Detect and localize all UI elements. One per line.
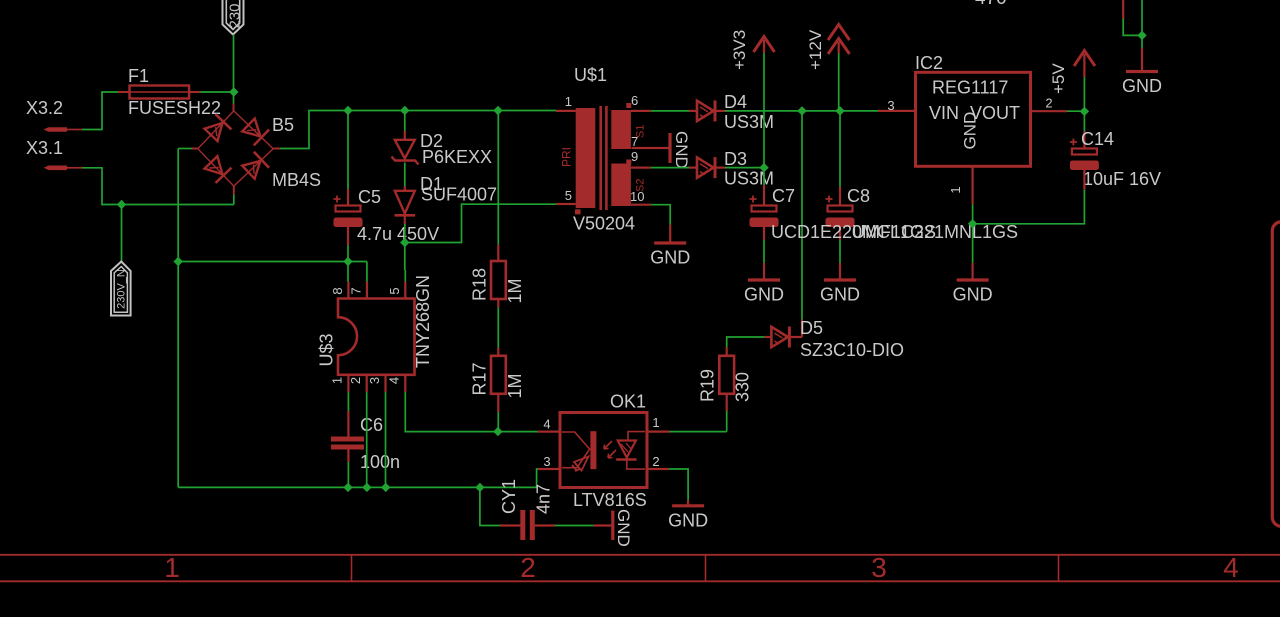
svg-text:1: 1 xyxy=(565,94,572,109)
svg-text:C8: C8 xyxy=(847,186,870,206)
supply arrow +5V xyxy=(1074,51,1095,67)
D5 anode lead xyxy=(765,336,772,338)
svg-text:MB4S: MB4S xyxy=(272,170,321,190)
OK1 pin4 stub xyxy=(538,431,560,433)
wire to transformer pin5 xyxy=(405,204,557,242)
IC2 pin 2 stub xyxy=(1031,110,1068,112)
junction D1/pin5 node xyxy=(400,238,409,247)
bridge right pin stub xyxy=(273,148,280,150)
capacitor C8 xyxy=(826,196,833,203)
bridge top pin stub xyxy=(233,104,235,111)
U$1 pin 7 stub xyxy=(632,147,669,149)
wire +3V3 down xyxy=(763,53,765,168)
svg-text:PRI: PRI xyxy=(560,147,574,167)
wire junction to U$3 pin5 area xyxy=(404,243,406,271)
U$1 pin 5 stub xyxy=(557,203,576,205)
OK1 LED xyxy=(562,432,590,450)
svg-text:3: 3 xyxy=(887,98,894,113)
svg-text:GND: GND xyxy=(1122,76,1162,96)
junction +12V/C8 xyxy=(835,106,844,115)
svg-text:4.7u 450V: 4.7u 450V xyxy=(357,224,439,244)
wire C5 bottom xyxy=(347,245,349,262)
svg-text:1: 1 xyxy=(164,552,180,583)
svg-text:P6KEXX: P6KEXX xyxy=(422,147,492,167)
component outline right edge (partial) xyxy=(1272,222,1280,527)
D3 cathode lead xyxy=(716,167,726,169)
svg-text:1M: 1M xyxy=(505,278,525,303)
wire D3 to node xyxy=(725,167,764,169)
svg-text:LTV816S: LTV816S xyxy=(573,490,647,510)
wire X3.1 xyxy=(82,168,122,205)
junction CY1 node xyxy=(475,483,484,492)
wire pin2 down xyxy=(366,392,368,487)
wire X3.1 to bridge bottom xyxy=(122,204,234,206)
IC2 pin 1 stub xyxy=(971,166,973,204)
svg-text:2: 2 xyxy=(520,552,536,583)
junction C6 bottom xyxy=(343,483,352,492)
resistor R17 xyxy=(491,356,506,394)
junction X3.1/230V_N node xyxy=(117,200,126,209)
svg-text:1: 1 xyxy=(948,186,963,193)
frame bottom band xyxy=(0,554,1280,556)
svg-text:3: 3 xyxy=(367,377,382,384)
wire rail to C8 xyxy=(839,111,841,187)
U$1 polarity dot primary xyxy=(575,209,581,214)
wire +5V down xyxy=(1083,77,1085,111)
D3 anode lead xyxy=(689,167,697,169)
svg-text:F1: F1 xyxy=(128,66,149,86)
svg-text:D3: D3 xyxy=(724,149,747,169)
svg-text:GND: GND xyxy=(614,509,633,547)
C8 bottom lead xyxy=(839,227,841,240)
capacitor C6 100n xyxy=(331,437,364,442)
D4 cathode lead xyxy=(716,110,726,112)
junction D5 branch xyxy=(797,106,806,115)
wire +12V down xyxy=(838,54,840,111)
bridge diode top-right xyxy=(242,119,260,137)
svg-text:GND: GND xyxy=(650,248,690,268)
wire OK1 pin1 to R19 xyxy=(670,431,727,433)
U$3 pin 5 stub xyxy=(404,282,406,299)
wire rail up to OK1 pin3 xyxy=(537,469,538,487)
wire node to C7 xyxy=(763,168,765,185)
svg-text:C5: C5 xyxy=(358,187,381,207)
svg-text:2: 2 xyxy=(1045,96,1052,111)
junction top right xyxy=(1137,31,1146,40)
IC2 pin 3 stub xyxy=(878,110,916,112)
bridge bottom pin stub xyxy=(233,186,235,195)
svg-text:4: 4 xyxy=(543,417,550,432)
OK1 pin2 stub xyxy=(647,468,669,470)
wire to pin7 xyxy=(366,262,368,282)
svg-text:IC2: IC2 xyxy=(915,53,943,73)
frame divider 1|2 xyxy=(351,555,353,582)
svg-text:US3M: US3M xyxy=(724,112,774,132)
U$1 secondary S2 xyxy=(611,164,631,207)
supply symbol 230V_N xyxy=(111,262,131,316)
bridge rectifier B5 MB4S xyxy=(198,111,234,149)
wire to CY1 xyxy=(480,487,500,525)
IC U$3 TNY268GN body xyxy=(338,299,415,375)
U$3 pin 8 stub xyxy=(347,282,349,299)
svg-text:8: 8 xyxy=(330,287,345,294)
C7 bottom lead xyxy=(763,227,765,240)
svg-text:D5: D5 xyxy=(800,318,823,338)
U$1 secondary S1 xyxy=(611,110,631,149)
C5 bottom lead xyxy=(347,227,349,245)
svg-text:2: 2 xyxy=(348,377,363,384)
svg-text:GND: GND xyxy=(668,510,708,530)
wire F1 to node xyxy=(201,91,234,93)
junction pin2 bottom xyxy=(362,483,371,492)
wire C5 top xyxy=(347,111,349,190)
regulator IC2 REG1117 body xyxy=(916,72,1031,166)
wire R19 to D5 xyxy=(727,337,765,347)
R18 top lead xyxy=(497,245,499,261)
wire node to C14 xyxy=(1083,111,1085,131)
svg-text:470: 470 xyxy=(975,0,1007,9)
wire C8 to gnd xyxy=(839,240,841,263)
wire bridge bottom vertical xyxy=(233,195,235,205)
wire pin1 to gnd xyxy=(972,224,974,263)
svg-text:2: 2 xyxy=(652,454,659,469)
wire to pin5 stub xyxy=(404,270,406,282)
wire pin6 to D4 xyxy=(651,110,689,112)
stub from top edge xyxy=(1122,0,1124,19)
ground (C7) xyxy=(763,263,765,279)
bottom rail xyxy=(178,486,536,488)
fuse F1 FUSESH22 xyxy=(118,91,130,93)
svg-text:1M: 1M xyxy=(505,373,525,398)
junction minus rail left xyxy=(174,257,183,266)
R19 bottom lead xyxy=(726,394,728,411)
svg-text:GND: GND xyxy=(820,285,860,305)
junction pin3 bottom xyxy=(381,483,390,492)
svg-text:U$3: U$3 xyxy=(317,333,337,366)
svg-text:US3M: US3M xyxy=(724,169,774,189)
connector pin X3.2 xyxy=(44,127,68,132)
svg-text:OK1: OK1 xyxy=(610,392,646,412)
junction R17/OK1 pin4 node xyxy=(493,427,502,436)
CY1 left lead xyxy=(500,524,521,526)
wire pin9 to D3 xyxy=(651,167,689,169)
C7 top lead xyxy=(763,185,765,206)
C6 bottom lead xyxy=(347,450,349,463)
svg-text:VIN: VIN xyxy=(929,103,959,123)
wire C14 to pin1 node xyxy=(973,190,1085,224)
svg-text:SUF4007: SUF4007 xyxy=(421,185,497,205)
connector pin X3.1 xyxy=(44,166,68,171)
supply arrow +3V3 xyxy=(754,37,775,53)
svg-text:TNY268GN: TNY268GN xyxy=(413,275,433,368)
wire D4 to IC2 xyxy=(725,110,878,112)
wire CY1 to gnd xyxy=(555,525,594,527)
svg-text:SZ3C10-DIO: SZ3C10-DIO xyxy=(800,340,904,360)
junction IC2 pin1/C14 bottom xyxy=(968,219,977,228)
OK1 pin1 stub xyxy=(647,431,670,433)
diode D3 xyxy=(697,157,714,177)
U$1 pin 9 stub xyxy=(631,167,651,169)
OK1 photodiode xyxy=(628,432,645,440)
svg-text:5: 5 xyxy=(387,287,402,294)
capacitor C5 xyxy=(334,196,341,203)
wire pin1 to C6 xyxy=(347,392,349,411)
ground rotated (CY1) xyxy=(594,524,612,526)
U$1 pin 6 stub xyxy=(631,110,651,112)
diode D5 xyxy=(771,327,788,347)
wire left vertical to minus rail xyxy=(177,149,179,262)
junction C5 top xyxy=(343,106,352,115)
junction C5 bottom xyxy=(343,257,352,266)
R17 top lead xyxy=(497,348,499,356)
svg-text:4: 4 xyxy=(1223,552,1239,583)
svg-text:5: 5 xyxy=(565,188,572,203)
svg-text:7: 7 xyxy=(348,287,363,294)
D5 up lead xyxy=(801,320,803,338)
CY1 right lead xyxy=(535,524,555,526)
svg-text:9: 9 xyxy=(631,149,638,164)
C14 top lead xyxy=(1083,131,1085,148)
frame divider 3|4 xyxy=(1058,555,1060,582)
svg-text:+12V: +12V xyxy=(806,29,825,70)
wire R18 to R17 xyxy=(497,307,499,347)
C8 top lead xyxy=(839,187,841,206)
svg-text:C14: C14 xyxy=(1081,129,1114,149)
U$1 polarity dots secondary xyxy=(626,103,631,108)
svg-text:REG1117: REG1117 xyxy=(932,78,1008,98)
C6 top lead xyxy=(347,411,349,437)
ground (top right) xyxy=(1141,48,1143,71)
D4 anode lead xyxy=(689,110,697,112)
wire X3.2 to F1 xyxy=(82,92,118,130)
svg-text:6: 6 xyxy=(631,93,638,108)
D1 bottom lead xyxy=(404,217,406,225)
wire pin10 to gnd xyxy=(651,205,670,225)
svg-text:B5: B5 xyxy=(272,115,294,135)
ground (OK1 pin2) xyxy=(687,500,689,505)
svg-text:C7: C7 xyxy=(772,186,795,206)
wire to pin8 xyxy=(347,262,349,282)
wire D1 bottom xyxy=(404,224,406,243)
wire bridge left xyxy=(178,148,192,150)
svg-text:3: 3 xyxy=(871,552,887,583)
ground (U$1 pin10) xyxy=(669,225,671,242)
svg-text:10uF 16V: 10uF 16V xyxy=(1083,169,1161,189)
wire node to bridge top xyxy=(233,92,235,104)
svg-text:FUSESH22: FUSESH22 xyxy=(128,98,221,118)
svg-text:R19: R19 xyxy=(698,369,718,402)
svg-text:230V_N: 230V_N xyxy=(115,269,127,309)
bridge left pin stub xyxy=(192,148,198,150)
svg-text:X3.1: X3.1 xyxy=(26,138,63,158)
wire pin3 down xyxy=(385,392,387,487)
wire C7 to gnd xyxy=(763,240,765,263)
svg-text:UMF1C221MNL1GS: UMF1C221MNL1GS xyxy=(852,222,1018,242)
capacitor CY1 4n7 xyxy=(520,510,525,540)
plus rail xyxy=(348,110,556,112)
junction R18 top xyxy=(493,106,502,115)
svg-text:GND: GND xyxy=(744,285,784,305)
U$1 core xyxy=(599,106,602,210)
svg-text:GND: GND xyxy=(953,285,993,305)
junction D3/+3V3/C7 xyxy=(759,163,768,172)
wire to top gnd node xyxy=(1123,19,1142,36)
svg-text:X3.2: X3.2 xyxy=(26,98,63,118)
frame divider 2|3 xyxy=(705,555,707,582)
U$1 pin 1 stub xyxy=(556,110,576,112)
C14 bottom lead xyxy=(1083,170,1085,190)
capacitor C14 xyxy=(1070,139,1077,146)
wire to D2 xyxy=(404,111,406,132)
bridge diode bottom-right xyxy=(242,161,260,179)
bridge diode top-left xyxy=(205,123,223,141)
supply symbol 230V xyxy=(223,0,244,35)
ground (C8) xyxy=(839,263,841,279)
resistor R19 xyxy=(719,356,734,394)
R18 bottom lead xyxy=(497,299,499,307)
wire left vertical lower xyxy=(177,262,179,488)
svg-text:330: 330 xyxy=(733,372,753,402)
diode D1 xyxy=(395,191,415,214)
junction +5V/C14 xyxy=(1080,107,1089,116)
wire plus5 rail to D5 xyxy=(801,111,803,320)
svg-text:CY1: CY1 xyxy=(499,479,519,514)
svg-text:7: 7 xyxy=(631,134,638,149)
wire from top edge xyxy=(1141,0,1143,35)
wire pin2 to node xyxy=(1067,110,1084,112)
wire bridge right to plus rail xyxy=(280,111,348,149)
bridge diode bottom-left xyxy=(205,156,223,174)
U$1 primary winding xyxy=(576,108,596,208)
minus rail xyxy=(178,261,367,263)
wire D2 to D1 xyxy=(404,163,406,187)
wire down to 230V_N xyxy=(121,205,123,262)
svg-text:10: 10 xyxy=(630,189,644,204)
D5 cathode lead xyxy=(791,336,802,338)
svg-text:R18: R18 xyxy=(470,268,490,301)
wire R17 to node xyxy=(497,412,499,432)
D1 top lead xyxy=(404,186,406,191)
svg-text:R17: R17 xyxy=(470,362,490,395)
diode D4 xyxy=(697,101,714,121)
junction D2 top xyxy=(400,106,409,115)
svg-text:1: 1 xyxy=(330,377,345,384)
U$3 bottom pin stubs xyxy=(347,375,349,392)
svg-text:GND: GND xyxy=(961,112,980,150)
supply arrow +12V xyxy=(828,25,850,41)
svg-text:230: 230 xyxy=(227,3,244,28)
wire R19 bottom xyxy=(726,411,728,432)
wire 230V supply down xyxy=(233,35,235,93)
resistor R18 xyxy=(491,261,506,299)
wire pin4 to OK1 xyxy=(405,392,538,432)
wire node to gnd xyxy=(1141,35,1143,48)
svg-text:1: 1 xyxy=(652,415,659,430)
optocoupler OK1 LTV816S body xyxy=(560,413,647,488)
svg-text:+5V: +5V xyxy=(1049,63,1068,94)
OK1 pin3 stub xyxy=(538,468,560,470)
C5 top lead xyxy=(347,189,349,206)
D2 top lead xyxy=(404,131,406,140)
svg-text:V50204: V50204 xyxy=(573,214,635,234)
R17 bottom lead xyxy=(497,394,499,412)
wire OK1 pin2 to gnd xyxy=(669,469,688,500)
svg-text:4: 4 xyxy=(387,377,402,384)
svg-text:+3V3: +3V3 xyxy=(730,30,749,70)
zener diode D2 xyxy=(395,140,415,159)
wire rail to R18 xyxy=(497,111,499,245)
svg-text:C6: C6 xyxy=(360,415,383,435)
svg-text:4n7: 4n7 xyxy=(534,484,554,514)
R19 top lead xyxy=(726,347,728,356)
wire pin1 down xyxy=(972,205,974,224)
OK1 light arrows xyxy=(604,441,612,449)
ground rotated (U$1 pin7) xyxy=(668,133,671,163)
junction F1/230V node xyxy=(229,87,238,96)
U$3 pin 7 stub xyxy=(366,282,368,299)
wire C6 to rail xyxy=(347,462,349,487)
U$1 pin 10 stub xyxy=(631,204,651,206)
svg-text:U$1: U$1 xyxy=(574,65,607,85)
svg-text:GND: GND xyxy=(672,131,691,169)
capacitor C7 xyxy=(750,196,757,203)
ground (IC2 pin1) xyxy=(971,263,973,279)
svg-text:3: 3 xyxy=(543,454,550,469)
svg-text:D4: D4 xyxy=(724,92,747,112)
